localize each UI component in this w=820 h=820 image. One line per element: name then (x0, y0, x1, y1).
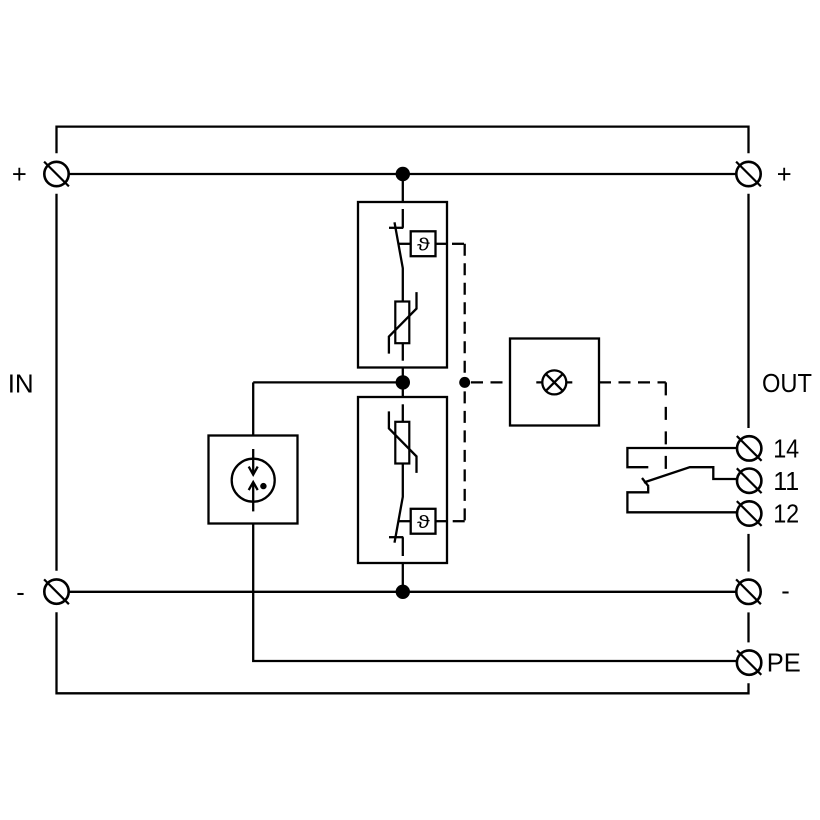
svg-text:+: + (12, 161, 27, 189)
svg-text:14: 14 (773, 436, 799, 464)
svg-text:-: - (781, 578, 790, 606)
svg-text:11: 11 (773, 468, 799, 496)
svg-text:+: + (777, 161, 792, 189)
svg-text:ϑ: ϑ (417, 512, 431, 532)
svg-text:-: - (16, 579, 25, 607)
svg-text:IN: IN (8, 368, 34, 398)
svg-text:12: 12 (773, 501, 799, 529)
svg-text:PE: PE (767, 650, 801, 678)
svg-text:OUT: OUT (762, 370, 812, 398)
svg-text:ϑ: ϑ (417, 235, 431, 255)
